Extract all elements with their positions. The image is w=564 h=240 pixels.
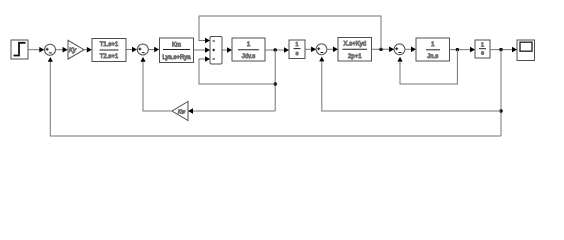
integrator block 1/s (speed) [289, 40, 305, 59]
sum S3 [316, 44, 327, 55]
top feedback wire from node B to sum U top input [199, 16, 381, 49]
wire X block to S4, node B [372, 47, 395, 53]
svg-text:Jdv.s: Jdv.s [242, 54, 256, 60]
svg-text:Jn.s: Jn.s [427, 54, 438, 60]
wire S3 to X block [327, 47, 338, 53]
svg-text:Lya.s+Rya: Lya.s+Rya [162, 55, 191, 61]
wire Kw output to sum S2 bottom input [140, 57, 172, 111]
wire Jdv to integrator1, node A [265, 47, 289, 53]
wire integrator1 to S3 [305, 47, 316, 53]
svg-text:s: s [296, 51, 299, 57]
wire TF1 to S2 [126, 47, 137, 53]
scope block [517, 40, 535, 61]
wire integrator2 to scope, node D [490, 47, 517, 53]
sum S1 [45, 44, 56, 55]
sum S4 [394, 44, 405, 55]
wire Jn to integrator2, node C [450, 47, 476, 53]
svg-text:T1.s+1: T1.s+1 [100, 42, 119, 48]
wire junction E to sum U bottom input [199, 56, 275, 84]
wire node D down, junction F [499, 50, 502, 136]
wire U to Jdv block [222, 47, 232, 53]
svg-text:s: s [481, 51, 484, 57]
svg-text:Kw: Kw [178, 109, 185, 115]
svg-text:X.s+Kyd: X.s+Kyd [344, 41, 367, 47]
transfer block (X.s+Kyd)/(2p+1) [338, 38, 372, 62]
svg-text:1: 1 [481, 42, 484, 48]
wire S4 to Jn block [405, 47, 416, 53]
gain Kw (left pointing) [172, 102, 188, 121]
sum S2 [137, 44, 148, 55]
transfer block Km/(Lya.s+Rya) [160, 38, 194, 63]
gain Ky [68, 40, 84, 59]
wire Km to sum U middle input [194, 47, 211, 53]
svg-text:1: 1 [247, 42, 251, 48]
wire junction F to sum S3 bottom input [319, 57, 501, 111]
step source block [11, 40, 28, 59]
integrator block 1/s (angle) [475, 40, 490, 58]
transfer block 1/(Jdv.s) [232, 38, 265, 61]
wire step to S1 [28, 47, 44, 53]
transfer block TF1 (T1.s+1)/(T2.s+1) [92, 39, 126, 62]
svg-text:Ky: Ky [69, 48, 77, 54]
svg-text:Km: Km [172, 42, 181, 48]
transfer block 1/(Jn.s) [416, 38, 450, 61]
wire bottom feedback to sum S1 bottom input [48, 57, 501, 136]
sum U (rectangular, inputs - + -) [210, 37, 222, 65]
svg-text:1: 1 [431, 42, 435, 48]
wire S2 to Km block [148, 47, 159, 53]
svg-text:2p+1: 2p+1 [348, 54, 362, 60]
speed tap wire down from node A, junction E [274, 50, 277, 111]
wire S1 to Ky [56, 47, 68, 53]
wire node A branch into gain Kw [188, 108, 275, 114]
wire node C loop to sum S4 bottom input [397, 50, 457, 84]
svg-text:1: 1 [295, 42, 298, 48]
wire Ky to TF1 [84, 47, 92, 53]
svg-text:T2.s+1: T2.s+1 [100, 54, 119, 60]
